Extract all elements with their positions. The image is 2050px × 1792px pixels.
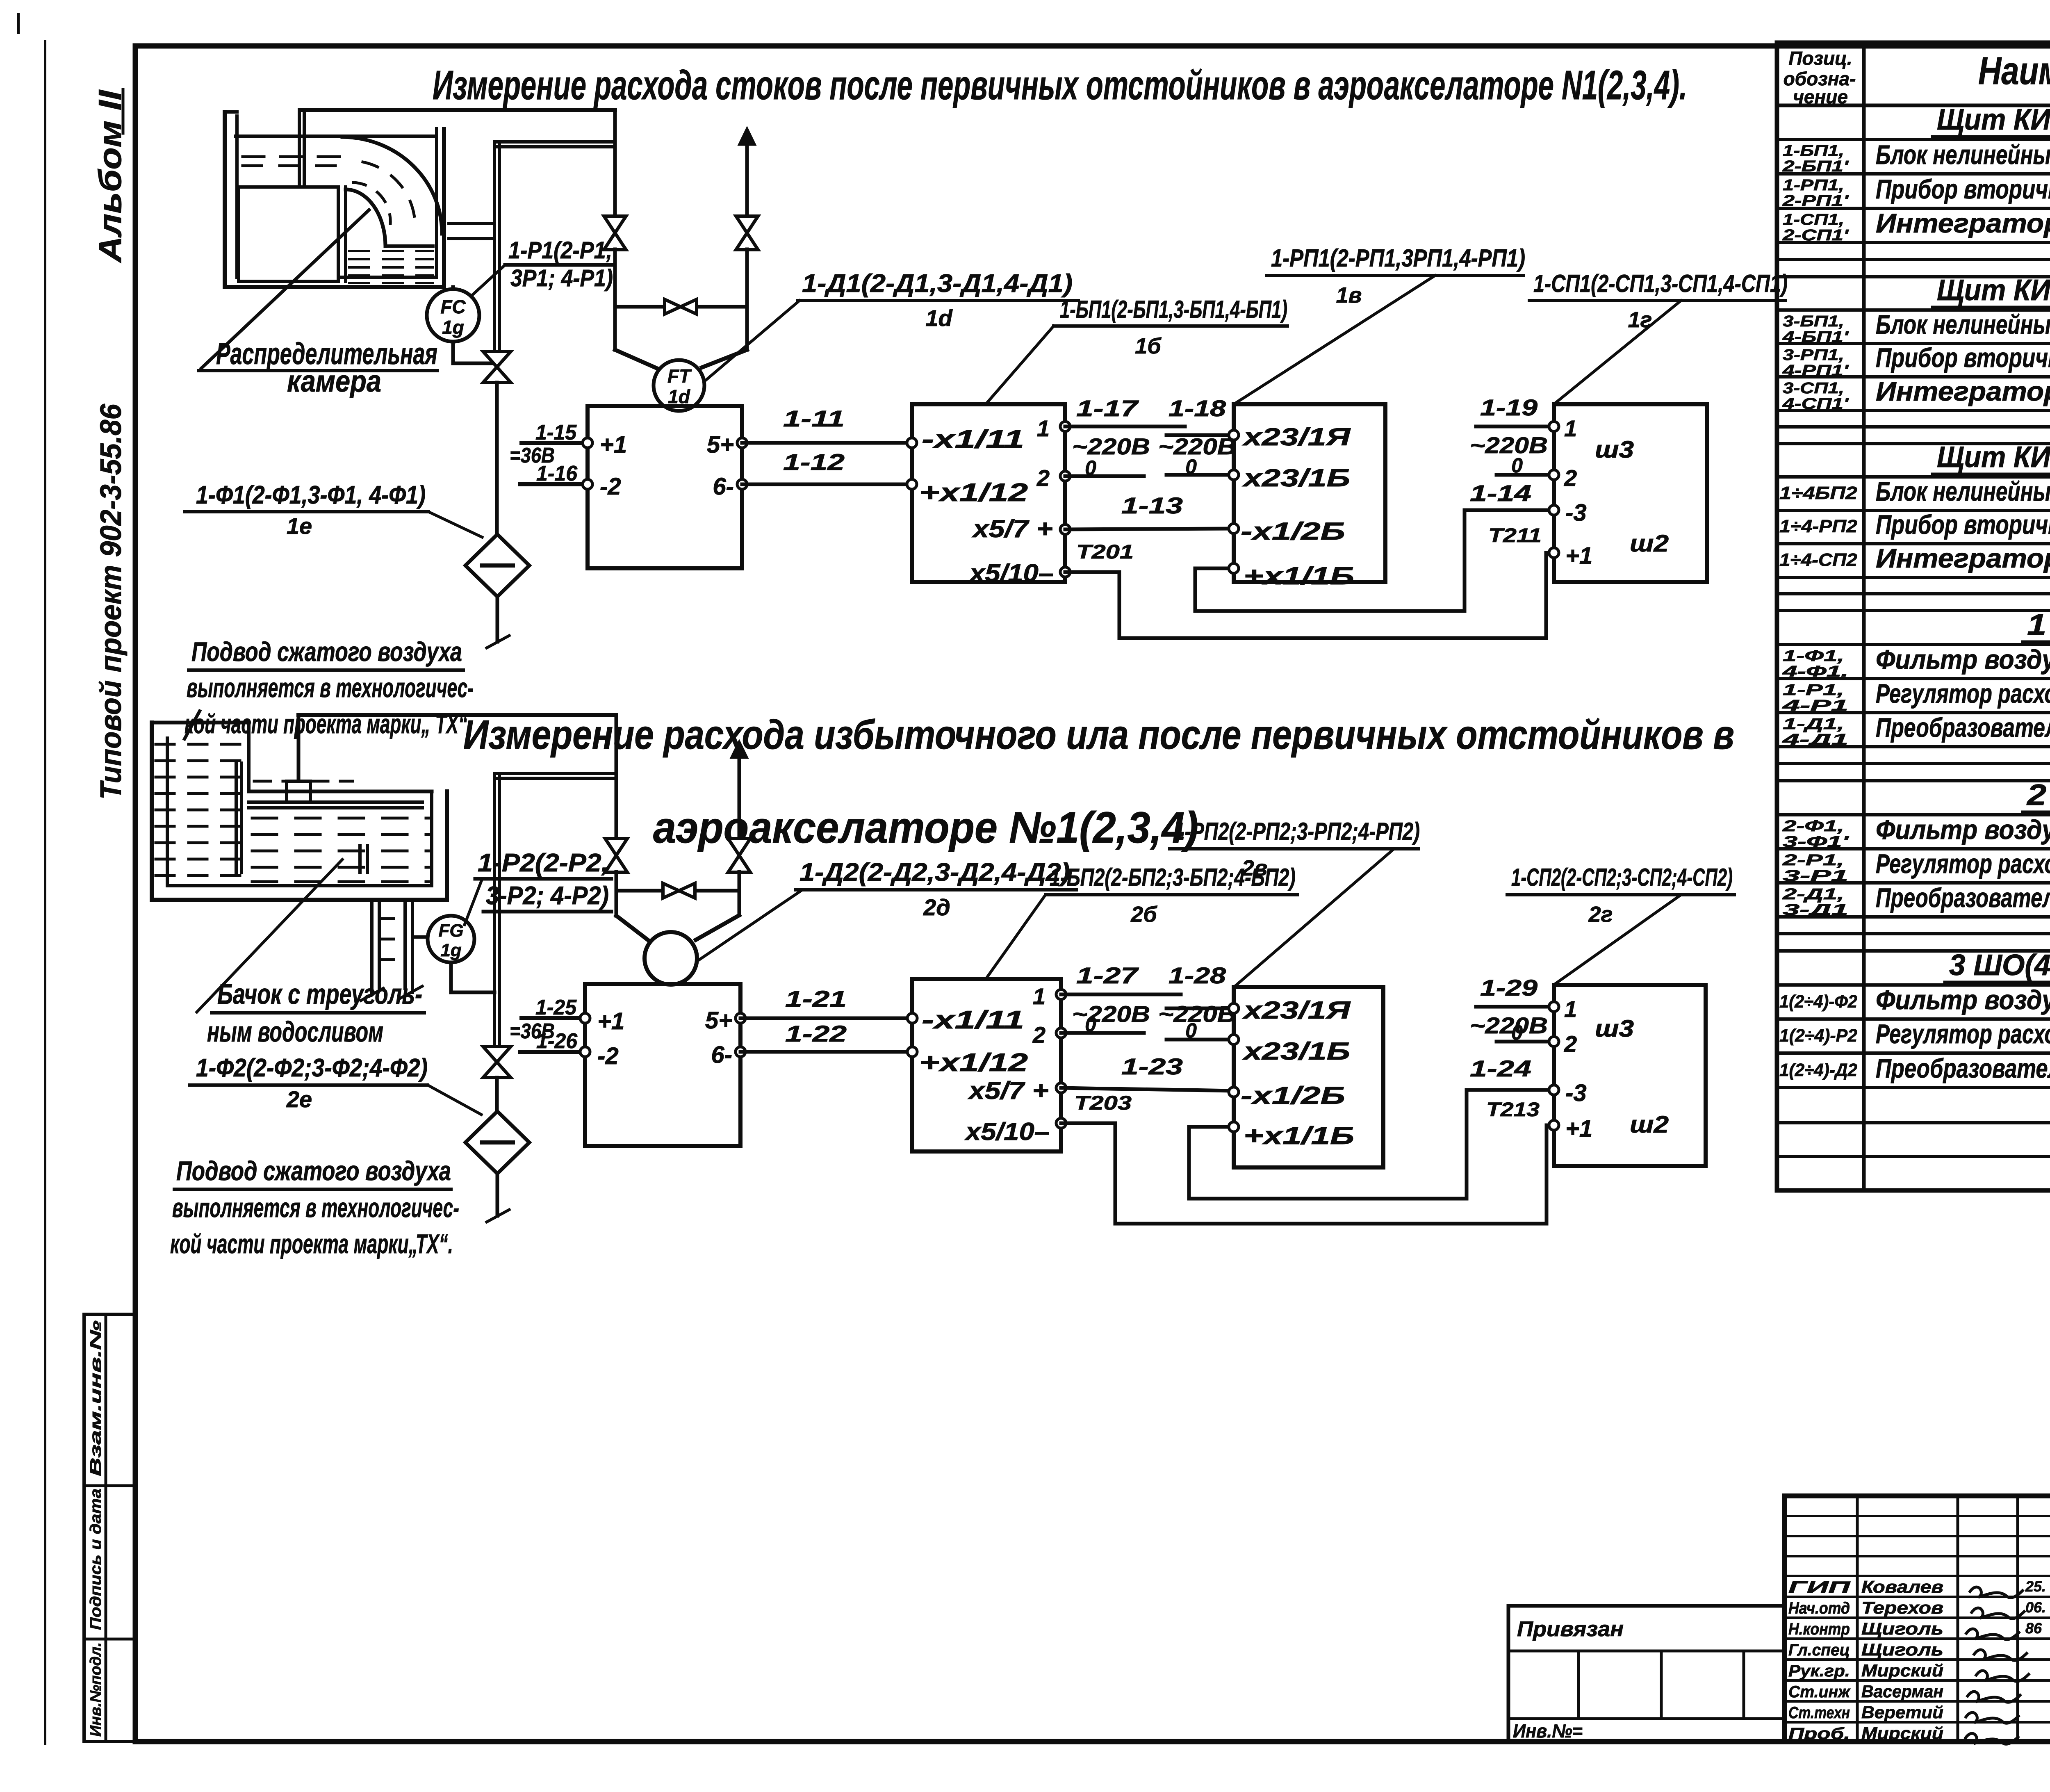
svg-text:х23/1Б: х23/1Б [1242, 1037, 1350, 1065]
svg-text:+х1/1Б: +х1/1Б [1244, 1122, 1354, 1149]
svg-text:Преобразователь „Сапфир“- 22ДД: Преобразователь „Сапфир“- 22ДД [1876, 882, 2050, 913]
svg-text:Блок нелинейных преобразований: Блок нелинейных преобразований БНП-04 [1876, 476, 2050, 506]
svg-text:Блок нелинейных преобразований: Блок нелинейных преобразований БНП-04 [1876, 309, 2050, 340]
svg-text:~220В: ~220В [1072, 1001, 1150, 1027]
svg-text:~220В: ~220В [1158, 433, 1236, 459]
svg-text:+х1/1Б: +х1/1Б [1244, 562, 1354, 590]
svg-text:+1: +1 [597, 1008, 624, 1035]
svg-text:~220В: ~220В [1470, 432, 1548, 458]
svg-text:2: 2 [1564, 1031, 1577, 1057]
svg-text:1: 1 [1037, 415, 1050, 441]
svg-text:1-РП2(2-РП2;3-РП2;4-РП2): 1-РП2(2-РП2;3-РП2;4-РП2) [1174, 818, 1420, 845]
svg-text:Фильтр воздуха ФВ-1,6: Фильтр воздуха ФВ-1,6 [1876, 814, 2050, 845]
svg-text:-х1/11: -х1/11 [922, 1006, 1024, 1034]
svg-text:~220В: ~220В [1470, 1012, 1548, 1038]
svg-text:5+: 5+ [707, 431, 734, 458]
svg-text:1-Ф1,: 1-Ф1, [1783, 647, 1844, 665]
svg-text:Интегратор С-1М: Интегратор С-1М [1876, 543, 2050, 573]
svg-text:Проб.: Проб. [1788, 1725, 1850, 1743]
svg-text:камера: камера [287, 364, 381, 398]
svg-text:0: 0 [1085, 456, 1096, 479]
svg-text:1-Д2(2-Д2,3-Д2,4-Д2): 1-Д2(2-Д2,3-Д2,4-Д2) [799, 858, 1070, 887]
svg-text:Измерение расхода стоков по: Измерение расхода стоков после первичных… [433, 62, 1687, 108]
svg-text:1-17: 1-17 [1076, 395, 1139, 421]
svg-text:1-27: 1-27 [1076, 962, 1139, 988]
svg-text:ным водосливом: ным водосливом [207, 1016, 383, 1048]
svg-text:1-Д1,: 1-Д1, [1783, 716, 1844, 733]
svg-text:Подвод сжатого воздуха: Подвод сжатого воздуха [176, 1156, 451, 1186]
svg-text:Бачок с треуголь-: Бачок с треуголь- [217, 978, 422, 1010]
svg-text:х5/10–: х5/10– [964, 1118, 1050, 1145]
svg-text:Ковалев: Ковалев [1861, 1577, 1943, 1596]
svg-text:Нач.отд: Нач.отд [1788, 1599, 1850, 1617]
svg-text:ш3: ш3 [1595, 1015, 1634, 1042]
svg-text:1-РП1(2-РП1,3РП1,4-РП1): 1-РП1(2-РП1,3РП1,4-РП1) [1271, 244, 1525, 272]
svg-text:2б: 2б [1130, 902, 1157, 927]
svg-text:ш2: ш2 [1630, 530, 1669, 557]
svg-text:5+: 5+ [705, 1007, 732, 1034]
svg-text:Щиголь: Щиголь [1861, 1619, 1943, 1638]
svg-text:Прибор вторичный РП-160-08: Прибор вторичный РП-160-08 [1876, 342, 2050, 373]
svg-text:Наименование: Наименование [1978, 49, 2050, 93]
svg-text:3Р1; 4-Р1): 3Р1; 4-Р1) [510, 265, 613, 292]
svg-text:1-Ф2(2-Ф2;3-Ф2;4-Ф2): 1-Ф2(2-Ф2;3-Ф2;4-Ф2) [196, 1054, 428, 1082]
svg-text:2-Р1,: 2-Р1, [1782, 852, 1844, 869]
svg-text:Щиголь: Щиголь [1861, 1640, 1943, 1659]
svg-text:Измерение расхода избыточног: Измерение расхода избыточного ила после … [463, 712, 1734, 758]
svg-text:Регулятор расхода воздуха РРВ-: Регулятор расхода воздуха РРВ-1 [1876, 678, 2050, 709]
svg-text:FG: FG [438, 921, 463, 941]
svg-text:Подвод сжатого воздуха: Подвод сжатого воздуха [191, 636, 462, 667]
svg-text:Т203: Т203 [1074, 1092, 1132, 1114]
svg-text:1-11: 1-11 [783, 406, 845, 431]
svg-text:Инв.№=: Инв.№= [1513, 1720, 1583, 1742]
svg-text:3-РП1,: 3-РП1, [1783, 347, 1844, 364]
svg-text:Рук.гр.: Рук.гр. [1788, 1662, 1850, 1680]
svg-text:Преобразователь „Сапфир“-22ДД: Преобразователь „Сапфир“-22ДД [1876, 712, 2050, 743]
svg-text:1-Р2(2-Р2,: 1-Р2(2-Р2, [478, 849, 609, 877]
svg-text:Регулятор расхода воздуха РРВ-: Регулятор расхода воздуха РРВ-1 [1876, 1019, 2050, 1049]
svg-text:1-РП1,: 1-РП1, [1783, 177, 1844, 194]
svg-text:Ст.техн: Ст.техн [1788, 1704, 1850, 1722]
svg-text:FT: FT [667, 365, 692, 387]
svg-text:1-29: 1-29 [1480, 975, 1537, 1001]
svg-text:выполняется в технологичес-: выполняется в технологичес- [187, 673, 474, 703]
svg-text:1-Р1,: 1-Р1, [1783, 682, 1844, 699]
svg-text:2г: 2г [1588, 902, 1613, 927]
svg-text:1-Р1(2-Р1;: 1-Р1(2-Р1; [508, 237, 613, 264]
svg-text:2: 2 [1032, 1022, 1045, 1048]
svg-text:1в: 1в [1336, 283, 1362, 308]
svg-text:1-25: 1-25 [535, 996, 577, 1019]
svg-text:2е: 2е [286, 1086, 312, 1112]
svg-text:Васерман: Васерман [1861, 1682, 1943, 1701]
svg-text:6-: 6- [711, 1042, 732, 1068]
svg-text:Ст.инж: Ст.инж [1788, 1683, 1851, 1701]
svg-text:-х1/11: -х1/11 [922, 425, 1024, 454]
svg-text:1(2÷4)-Д2: 1(2÷4)-Д2 [1779, 1060, 1858, 1080]
svg-text:Подпись и дата: Подпись и дата [87, 1489, 105, 1630]
svg-text:1-14: 1-14 [1470, 480, 1531, 506]
svg-text:-х1/2Б: -х1/2Б [1241, 518, 1345, 545]
svg-text:3-БП1,: 3-БП1, [1783, 313, 1844, 330]
svg-text:1-СП1(2-СП1,3-СП1,4-СП1): 1-СП1(2-СП1,3-СП1,4-СП1) [1533, 270, 1788, 297]
svg-text:1(2÷4)-Ф2: 1(2÷4)-Ф2 [1779, 992, 1858, 1012]
svg-text:х23/1Б: х23/1Б [1242, 464, 1350, 492]
svg-text:1-28: 1-28 [1168, 962, 1226, 988]
svg-text:Прибор вторичный РП-160-08: Прибор вторичный РП-160-08 [1876, 174, 2050, 204]
svg-text:25.: 25. [2025, 1578, 2046, 1595]
svg-text:Щит КИП, панель 3: Щит КИП, панель 3 [1937, 441, 2050, 474]
svg-text:86: 86 [2025, 1620, 2042, 1637]
svg-text:выполняется в технологичес-: выполняется в технологичес- [172, 1192, 459, 1223]
svg-text:2в: 2в [1241, 856, 1268, 880]
svg-text:Блок нелинейных преобразований: Блок нелинейных преобразований БНП-04 [1876, 139, 2050, 170]
svg-text:Терехов: Терехов [1861, 1598, 1943, 1617]
svg-text:Гл.спец: Гл.спец [1788, 1641, 1850, 1659]
svg-text:кой части проекта марки„ТХ“.: кой части проекта марки„ТХ“. [170, 1229, 453, 1259]
svg-text:1÷4БП2: 1÷4БП2 [1779, 483, 1858, 503]
svg-text:1: 1 [1033, 983, 1045, 1009]
svg-text:х5/10–: х5/10– [968, 559, 1054, 587]
svg-text:Щит КИП, панель 1: Щит КИП, панель 1 [1937, 103, 2050, 136]
svg-text:2: 2 [1036, 465, 1050, 491]
svg-text:2-Д1,: 2-Д1, [1782, 886, 1844, 903]
svg-text:1-12: 1-12 [783, 449, 845, 475]
svg-text:1-18: 1-18 [1168, 395, 1226, 421]
svg-text:1-15: 1-15 [535, 421, 577, 445]
svg-text:Фильтр воздуха ФВ-1,6: Фильтр воздуха ФВ-1,6 [1876, 985, 2050, 1015]
svg-text:Щит КИП, панель 2: Щит КИП, панель 2 [1937, 274, 2050, 307]
svg-text:-2: -2 [600, 473, 621, 500]
svg-text:+1: +1 [1565, 543, 1592, 569]
svg-text:2д: 2д [923, 894, 950, 920]
svg-text:1÷4-РП2: 1÷4-РП2 [1779, 516, 1858, 536]
svg-text:0: 0 [1185, 1019, 1197, 1042]
svg-text:-3: -3 [1565, 1080, 1587, 1106]
svg-text:Т201: Т201 [1076, 541, 1134, 563]
svg-text:ш2: ш2 [1630, 1111, 1669, 1138]
svg-text:1-19: 1-19 [1480, 394, 1537, 420]
svg-text:1-СП2(2-СП2;3-СП2;4-СП2): 1-СП2(2-СП2;3-СП2;4-СП2) [1511, 864, 1733, 891]
svg-text:ш3: ш3 [1595, 436, 1634, 463]
svg-text:3-Р2; 4-Р2): 3-Р2; 4-Р2) [486, 882, 609, 910]
svg-text:Привязан: Привязан [1517, 1617, 1624, 1641]
svg-text:~220В: ~220В [1158, 1001, 1236, 1027]
svg-text:FC: FC [440, 296, 466, 317]
svg-text:1÷4-СП2: 1÷4-СП2 [1779, 550, 1858, 570]
svg-text:3 ШО(4ШО÷6ШО): 3 ШО(4ШО÷6ШО) [1949, 949, 2050, 982]
svg-text:Н.контр: Н.контр [1788, 1620, 1850, 1638]
svg-text:2-Ф1,: 2-Ф1, [1782, 818, 1844, 835]
svg-text:1-СП1,: 1-СП1, [1783, 211, 1844, 228]
svg-text:Мирский: Мирский [1861, 1661, 1943, 1680]
svg-text:+х1/12: +х1/12 [919, 1049, 1028, 1077]
svg-text:6-: 6- [713, 473, 734, 500]
svg-text:Т211: Т211 [1488, 525, 1542, 547]
svg-text:0: 0 [1185, 455, 1197, 478]
svg-text:1-22: 1-22 [785, 1021, 847, 1046]
svg-text:~220В: ~220В [1072, 433, 1150, 459]
svg-text:1(2÷4)-Р2: 1(2÷4)-Р2 [1779, 1026, 1858, 1046]
svg-text:1-21: 1-21 [785, 986, 847, 1012]
svg-text:1е: 1е [287, 513, 312, 539]
svg-text:Веретий: Веретий [1861, 1703, 1943, 1722]
svg-text:ГИП: ГИП [1788, 1578, 1851, 1596]
svg-text:х23/1Я: х23/1Я [1242, 423, 1351, 451]
svg-text:1-Д1(2-Д1,3-Д1,4-Д1): 1-Д1(2-Д1,3-Д1,4-Д1) [802, 269, 1073, 298]
svg-text:Взам.инв.№: Взам.инв.№ [87, 1320, 105, 1476]
svg-text:1-23: 1-23 [1121, 1053, 1183, 1079]
svg-text:0: 0 [1511, 1021, 1523, 1044]
svg-text:0: 0 [1085, 1013, 1096, 1036]
svg-text:06.: 06. [2025, 1599, 2046, 1616]
svg-text:2 ШО: 2 ШО [2026, 779, 2050, 812]
svg-text:Инв.№подл.: Инв.№подл. [87, 1642, 105, 1737]
svg-text:1d: 1d [925, 305, 953, 331]
svg-text:0: 0 [1511, 454, 1523, 477]
svg-text:Интегратор С-1М: Интегратор С-1М [1876, 208, 2050, 238]
svg-text:1-БП1,: 1-БП1, [1783, 142, 1844, 160]
svg-text:-3: -3 [1565, 499, 1587, 526]
svg-text:Прибор вторичный РП-160-08: Прибор вторичный РП-160-08 [1876, 509, 2050, 540]
svg-text:3-СП1,: 3-СП1, [1783, 380, 1844, 397]
svg-text:1g: 1g [440, 940, 461, 960]
svg-text:х23/1Я: х23/1Я [1242, 996, 1351, 1024]
svg-text:Мирский: Мирский [1861, 1724, 1943, 1743]
svg-text:чение: чение [1793, 86, 1848, 107]
svg-text:-2: -2 [597, 1043, 619, 1069]
svg-text:1 ШО: 1 ШО [2027, 609, 2050, 641]
svg-text:Типовой проект 902-3-55.86: Типовой проект 902-3-55.86 [95, 404, 128, 800]
svg-text:1-13: 1-13 [1121, 492, 1183, 518]
svg-text:Фильтр воздуха ФВ-1,6: Фильтр воздуха ФВ-1,6 [1876, 644, 2050, 675]
svg-text:х5/7 +: х5/7 + [972, 515, 1053, 543]
svg-text:х5/7 +: х5/7 + [968, 1077, 1049, 1104]
svg-text:+х1/12: +х1/12 [919, 479, 1028, 507]
svg-text:Регулятор расхода воздуха РРВ-: Регулятор расхода воздуха РРВ-1 [1876, 848, 2050, 879]
svg-text:Преобразователь„Сапфир“-22ДД: Преобразователь„Сапфир“-22ДД [1876, 1053, 2050, 1083]
svg-text:1б: 1б [1135, 334, 1162, 358]
svg-text:Позиц.: Позиц. [1788, 48, 1852, 69]
svg-text:1g: 1g [442, 317, 464, 338]
svg-text:1-БП1(2-БП1,3-БП1,4-БП1): 1-БП1(2-БП1,3-БП1,4-БП1) [1060, 296, 1287, 323]
svg-text:+1: +1 [1565, 1115, 1592, 1142]
svg-text:1-16: 1-16 [536, 462, 578, 486]
svg-text:+1: +1 [600, 431, 627, 458]
svg-text:1-Ф1(2-Ф1,3-Ф1, 4-Ф1): 1-Ф1(2-Ф1,3-Ф1, 4-Ф1) [196, 481, 426, 509]
svg-text:1-26: 1-26 [536, 1029, 578, 1053]
svg-text:-х1/2Б: -х1/2Б [1241, 1082, 1345, 1109]
svg-text:2: 2 [1564, 465, 1577, 491]
svg-text:1-24: 1-24 [1470, 1056, 1531, 1081]
svg-text:Т213: Т213 [1486, 1099, 1540, 1121]
svg-text:1: 1 [1564, 996, 1577, 1022]
svg-text:Интегратор С-1М: Интегратор С-1М [1876, 376, 2050, 406]
svg-text:1: 1 [1564, 415, 1577, 441]
